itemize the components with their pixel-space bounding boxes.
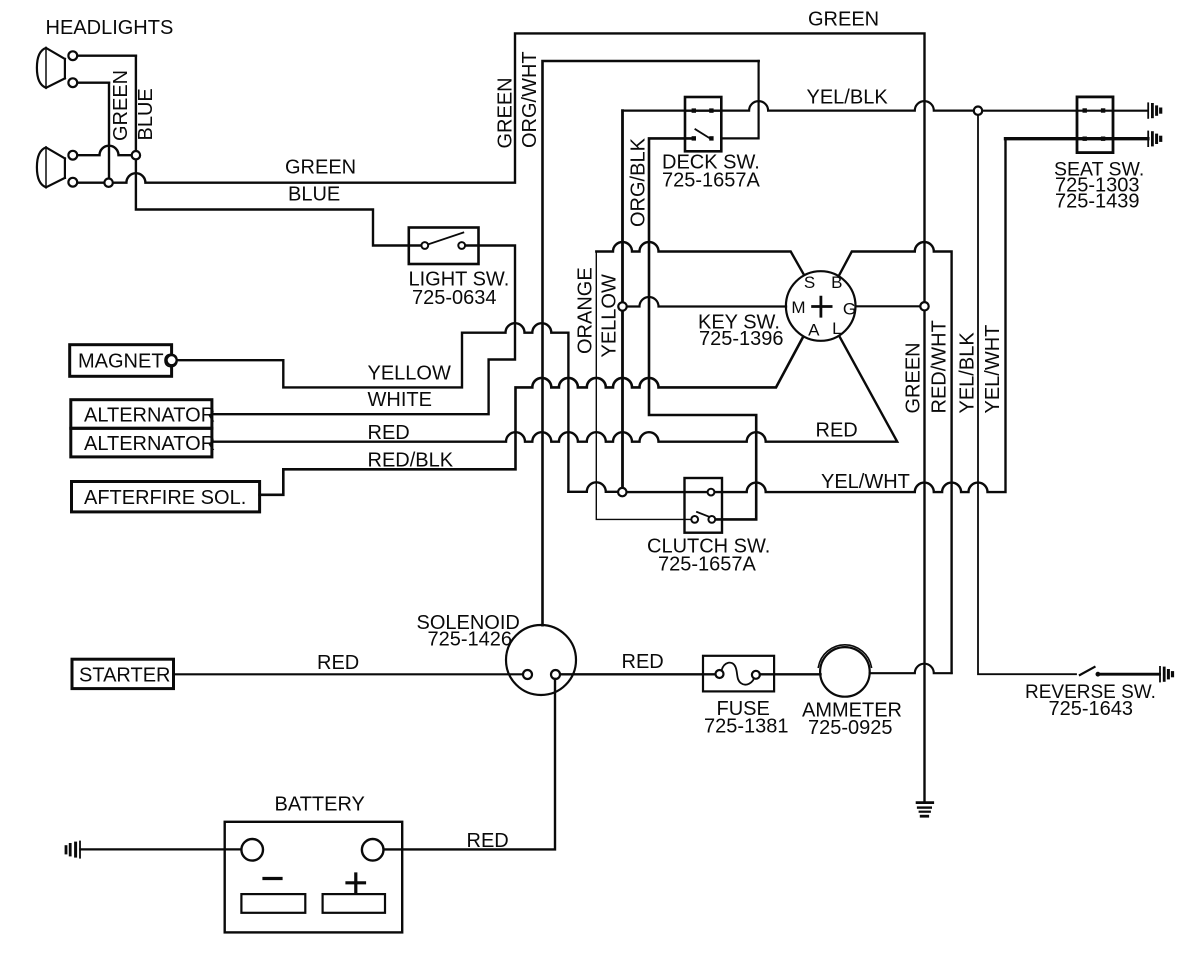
svg-text:RED: RED (816, 420, 858, 442)
fuse element squiggle (722, 663, 755, 685)
wire key switch M terminal with hop (627, 297, 786, 307)
terminal circle headlight2 A (68, 151, 77, 160)
reverse switch contact dot (1096, 672, 1101, 677)
ground chassis upper right 2 (1148, 131, 1161, 147)
svg-text:YEL/WHT: YEL/WHT (821, 471, 910, 493)
headlight lamp 2 (37, 147, 65, 187)
clutch switch CLUTCH SW body (685, 478, 723, 533)
key switch center cross (813, 297, 832, 316)
svg-text:BLUE: BLUE (135, 88, 157, 140)
alternator box 2 (71, 428, 212, 457)
fuse box FUSE (703, 656, 774, 692)
svg-text:RED: RED (368, 422, 410, 444)
wire YEL/WHT clutch output to seat switch (715, 139, 1006, 492)
key switch KEY SW body (786, 271, 856, 341)
junction node on blue vertical (132, 151, 140, 159)
wire RED/BLK from afterfire solenoid to key switch A terminal (260, 337, 803, 495)
wire reverse switch to ground (1100, 673, 1159, 676)
afterfire solenoid box AFTERFIRE SOL (72, 482, 260, 512)
wire GREEN from headlight2 lower terminal along y=182.7 to top bus (77, 33, 924, 802)
deck switch DECK SW body (685, 97, 721, 151)
battery minus sign (264, 877, 281, 880)
junction node yellow at clutch feed (618, 488, 626, 496)
svg-text:725-1396: 725-1396 (699, 328, 784, 350)
seat switch SEAT SW body (1077, 97, 1113, 153)
ground earth below green vertical (916, 803, 934, 817)
light switch left contact (421, 242, 428, 249)
svg-text:BLUE: BLUE (288, 184, 340, 206)
svg-text:G: G (843, 300, 856, 319)
wire ORG/BLK deck switch lower left to clutch switch (649, 138, 756, 519)
wire YELLOW vertical from deck switch to clutch junction (621, 111, 624, 488)
svg-text:RED: RED (467, 830, 509, 852)
reverse switch blade (1080, 667, 1095, 675)
junction node yellow to M terminal (618, 302, 626, 310)
ground chassis battery negative (66, 841, 80, 859)
svg-text:ORANGE: ORANGE (575, 267, 597, 354)
svg-text:RED/WHT: RED/WHT (929, 320, 951, 413)
svg-text:725-1439: 725-1439 (1055, 191, 1140, 213)
svg-text:M: M (791, 298, 805, 317)
svg-text:ALTERNATOR: ALTERNATOR (84, 405, 215, 427)
fuse right terminal (752, 671, 760, 679)
battery cell plate right (323, 894, 385, 913)
wire YEL/BLK deck switch top run to seat switch and ground (623, 101, 1148, 111)
svg-text:725-1657A: 725-1657A (658, 554, 757, 576)
wire headlight1 terminal A to corner (77, 55, 136, 57)
wire light switch output down to white wire (212, 246, 515, 415)
junction node on green wire (104, 179, 112, 187)
svg-text:725-1426: 725-1426 (428, 629, 513, 651)
battery negative terminal (241, 839, 263, 861)
svg-text:GREEN: GREEN (110, 70, 132, 141)
wire RED fuse to ammeter (760, 673, 821, 675)
deck switch blade (695, 129, 709, 138)
ammeter outer arc (818, 645, 871, 667)
svg-text:725-1643: 725-1643 (1049, 698, 1134, 720)
svg-text:L: L (832, 319, 841, 338)
svg-text:BATTERY: BATTERY (275, 794, 365, 816)
svg-text:YEL/WHT: YEL/WHT (982, 325, 1004, 414)
svg-text:GREEN: GREEN (285, 157, 356, 179)
alternator box 1 (71, 400, 212, 429)
fuse left terminal (716, 670, 724, 678)
clutch switch blade (697, 512, 711, 518)
battery positive terminal (362, 839, 384, 861)
deck switch wire through top contacts (685, 109, 721, 111)
magneto terminal circle (167, 355, 177, 365)
wire RED/WHT from B terminal down to ammeter (839, 242, 952, 673)
wire key switch G terminal to green junction (856, 305, 921, 307)
terminal circle headlight1 B (68, 78, 77, 87)
junction node green at G terminal (920, 302, 928, 310)
wire ammeter to RED/WHT riser with hop (870, 664, 952, 674)
svg-text:GREEN: GREEN (808, 9, 879, 31)
wire green drop from headlight1 lower terminal (108, 83, 110, 183)
clutch switch bottom right contact (708, 516, 715, 523)
wire seat switch bottom run to ground (1006, 137, 1148, 140)
terminal circle headlight1 A (68, 51, 77, 60)
solenoid right terminal (551, 670, 560, 679)
light switch blade (425, 233, 464, 246)
wire ORG/WHT from top run down to solenoid (543, 61, 759, 625)
wire yellow junction into clutch switch (627, 491, 708, 493)
wire RED solenoid to fuse (560, 673, 716, 675)
svg-text:YEL/BLK: YEL/BLK (807, 87, 889, 109)
magneto box MAGNETO (70, 345, 172, 377)
svg-text:YEL/BLK: YEL/BLK (957, 332, 979, 414)
wire RED battery positive to solenoid (384, 679, 556, 849)
svg-text:725-1381: 725-1381 (704, 716, 789, 738)
svg-text:725-1657A: 725-1657A (662, 170, 761, 192)
svg-text:WHITE: WHITE (368, 389, 432, 411)
deck switch contact dots (692, 108, 714, 140)
svg-text:725-0634: 725-0634 (412, 287, 497, 309)
wire headlight1 terminal B to corner (77, 81, 109, 83)
svg-text:YELLOW: YELLOW (368, 363, 451, 385)
wire battery negative to ground (80, 848, 241, 850)
clutch switch bottom left contact (691, 516, 698, 523)
svg-text:RED: RED (622, 651, 664, 673)
clutch switch top contact (708, 489, 715, 496)
svg-text:YELLOW: YELLOW (599, 274, 621, 357)
ground chassis upper right 1 (1148, 102, 1161, 118)
starter box STARTER (72, 659, 174, 688)
junction node yel/blk at seat feed (974, 107, 982, 115)
wire YEL/BLK vertical down to reverse switch (978, 115, 1076, 674)
solenoid left terminal (523, 670, 532, 679)
svg-text:MAGNETO: MAGNETO (78, 351, 179, 373)
svg-text:725-0925: 725-0925 (808, 717, 893, 739)
svg-text:AFTERFIRE SOL.: AFTERFIRE SOL. (84, 487, 246, 509)
light switch LIGHT SW body (409, 228, 479, 265)
svg-text:S: S (804, 273, 815, 292)
headlight lamp 1 (37, 48, 65, 88)
svg-text:HEADLIGHTS: HEADLIGHTS (46, 17, 174, 39)
light switch right contact (458, 242, 465, 249)
svg-text:ORG/BLK: ORG/BLK (628, 137, 650, 227)
wire BLUE vertical from headlight1 down to light switch (136, 56, 421, 246)
ammeter AMMETER body (820, 647, 870, 697)
wire deck switch lower right to ORG/WHT (721, 61, 758, 138)
svg-text:RED: RED (317, 652, 359, 674)
svg-text:B: B (831, 273, 842, 292)
ground chassis reverse switch (1160, 666, 1173, 682)
terminal circle headlight2 B (68, 178, 77, 187)
battery box BATTERY (225, 822, 403, 933)
wire YELLOW from magneto up over to yellow drop (177, 323, 569, 492)
seat switch contact dots (1083, 108, 1106, 141)
svg-text:ALTERNATOR: ALTERNATOR (84, 433, 215, 455)
battery cell plate left (241, 894, 305, 913)
wire RED/WHT key switch S-B feed from orange corner to S terminal (596, 242, 804, 275)
solenoid SOLENOID body (506, 625, 576, 695)
wire yellow lower run to clutch junction (568, 482, 618, 492)
wire headlight2 upper terminal with hop to junction (77, 146, 136, 156)
battery plus sign (347, 874, 365, 892)
svg-text:ORG/WHT: ORG/WHT (519, 51, 541, 148)
svg-text:GREEN: GREEN (903, 342, 925, 413)
svg-text:STARTER: STARTER (79, 665, 171, 687)
svg-text:A: A (808, 320, 820, 339)
svg-text:RED/BLK: RED/BLK (368, 450, 454, 472)
wire RED starter to solenoid (174, 673, 524, 675)
wire ORANGE vertical from S-B feed to clutch bottom (596, 252, 691, 520)
svg-text:GREEN: GREEN (495, 77, 517, 148)
wire RED from alternator to key switch L terminal (212, 337, 897, 442)
